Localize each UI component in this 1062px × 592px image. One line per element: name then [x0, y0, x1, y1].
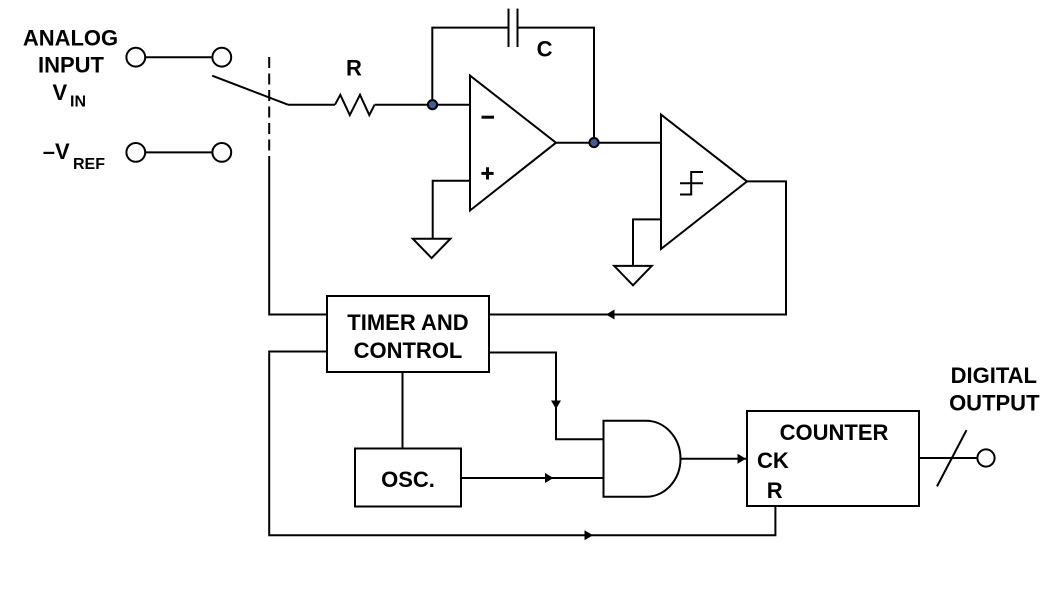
- svg-text:OSC.: OSC.: [381, 467, 435, 492]
- svg-text:INPUT: INPUT: [38, 52, 105, 77]
- wire op-amp output to comparator: [556, 142, 661, 144]
- op-amp U1 integrator: [470, 76, 556, 211]
- terminal VIN right: [212, 48, 231, 67]
- svg-text:REF: REF: [73, 156, 105, 173]
- wire comparator output to timer feedback: [489, 181, 786, 314]
- label ANALOG INPUT VIN: [23, 26, 118, 111]
- arrowhead right on osc wire: [545, 473, 554, 483]
- svg-text:ANALOG: ANALOG: [23, 26, 118, 51]
- arrowhead right on reset rail: [585, 530, 594, 540]
- wire timer to and gate upper input: [489, 353, 604, 440]
- svg-text:DIGITAL: DIGITAL: [951, 363, 1037, 388]
- wire timer to counter reset rail: [269, 352, 775, 536]
- wire oscillator to and gate lower input: [461, 477, 604, 479]
- label -VREF: [43, 139, 105, 173]
- terminal VREF left: [126, 143, 145, 162]
- wire op-amp noninverting input to ground: [433, 181, 470, 239]
- svg-text:COUNTER: COUNTER: [780, 420, 889, 445]
- block TIMER AND CONTROL: [327, 296, 489, 372]
- svg-text:OUTPUT: OUTPUT: [949, 390, 1040, 415]
- svg-text:CK: CK: [757, 448, 789, 473]
- wire between VREF terminals: [145, 151, 212, 153]
- terminal VREF right: [212, 143, 231, 162]
- op-amp U1 plus sign: [481, 167, 493, 179]
- block COUNTER: [747, 411, 919, 506]
- wire switch control to timer: [269, 163, 327, 315]
- wire resistor to op-amp inverting input: [375, 104, 470, 106]
- capacitor C plates: [509, 9, 518, 47]
- svg-text:C: C: [537, 37, 553, 62]
- wire counter output: [919, 457, 977, 459]
- op-amp U1 minus sign: [482, 116, 495, 119]
- svg-text:–V: –V: [43, 139, 70, 164]
- ground symbol at op-amp: [413, 239, 451, 258]
- wire timer to oscillator: [402, 372, 404, 449]
- svg-text:CONTROL: CONTROL: [354, 338, 463, 363]
- switch control dashed line: [268, 57, 270, 163]
- wire feedback left leg to capacitor: [432, 28, 508, 105]
- label DIGITAL OUTPUT: [949, 363, 1040, 415]
- arrowhead left on feedback wire: [606, 310, 615, 320]
- svg-text:R: R: [346, 56, 362, 81]
- svg-text:IN: IN: [70, 93, 86, 110]
- wire capacitor to op-amp output: [518, 28, 595, 143]
- terminal digital output: [977, 449, 994, 466]
- ground symbol at comparator: [614, 266, 652, 285]
- wire and gate to counter clock: [681, 458, 747, 460]
- wire comparator noninverting input to ground: [633, 219, 661, 266]
- svg-text:R: R: [767, 478, 783, 503]
- resistor R: [335, 95, 375, 115]
- arrowhead down on timer-and wire: [551, 401, 561, 410]
- node A junction dot at inverting input: [428, 100, 437, 109]
- arrowhead right at counter CK input: [738, 454, 747, 464]
- node B junction dot at op-amp output: [589, 138, 598, 147]
- AND gate: [604, 421, 681, 497]
- comparator U2: [661, 115, 747, 249]
- block OSC: [355, 449, 461, 507]
- comparator hysteresis symbol: [680, 172, 703, 195]
- switch S1 arm: [212, 76, 288, 105]
- bus slash on output wire: [937, 430, 967, 486]
- terminal VIN left: [126, 48, 145, 67]
- wire between VIN terminals: [145, 56, 212, 58]
- svg-text:V: V: [53, 80, 68, 105]
- wire switch to resistor: [288, 104, 335, 106]
- svg-text:TIMER AND: TIMER AND: [347, 310, 468, 335]
